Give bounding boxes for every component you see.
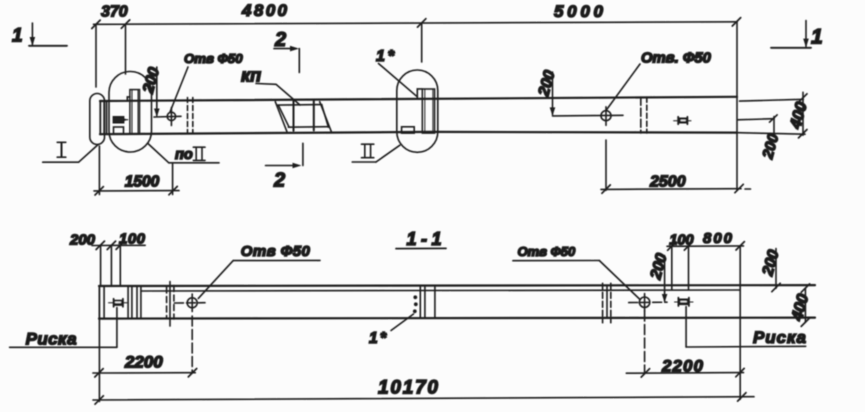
svg-text:2500: 2500 (649, 173, 686, 190)
svg-text:по: по (175, 147, 193, 163)
svg-text:1: 1 (811, 26, 823, 49)
svg-text:Риска: Риска (753, 328, 806, 347)
svg-text:2200: 2200 (661, 357, 704, 376)
svg-text:Отв Ф50: Отв Ф50 (241, 243, 311, 260)
svg-text:1-1: 1-1 (407, 229, 442, 249)
svg-text:370: 370 (101, 4, 128, 21)
svg-text:Отв Ф50: Отв Ф50 (184, 51, 243, 66)
svg-text:кп: кп (241, 66, 261, 86)
svg-text:2: 2 (273, 170, 285, 192)
svg-text:Отв Ф50: Отв Ф50 (518, 244, 577, 259)
svg-text:Риска: Риска (26, 330, 77, 349)
svg-text:10170: 10170 (378, 378, 438, 399)
svg-text:2200: 2200 (124, 353, 163, 372)
svg-text:Отв. Ф50: Отв. Ф50 (641, 51, 712, 67)
svg-text:1: 1 (12, 26, 23, 47)
svg-text:1500: 1500 (125, 174, 160, 191)
svg-text:800: 800 (703, 230, 733, 247)
svg-text:2: 2 (274, 29, 286, 51)
svg-text:100: 100 (669, 233, 693, 249)
